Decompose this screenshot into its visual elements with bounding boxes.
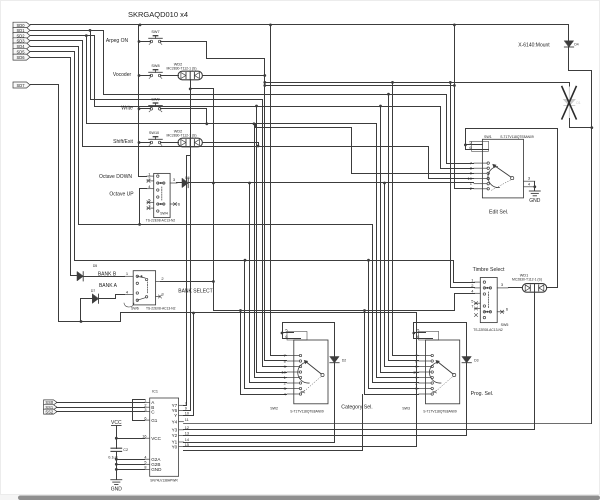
svg-text:7: 7 bbox=[471, 304, 474, 309]
wire scan row A bbox=[265, 82, 570, 84]
wire VCC to pin16 bbox=[117, 438, 145, 440]
junction SW2 pin5 bbox=[281, 332, 284, 335]
wire scan row WD2chain bbox=[214, 310, 455, 312]
net flag SS2 bbox=[44, 409, 57, 414]
net flag SD6 bbox=[13, 54, 30, 60]
junction bbox=[253, 122, 256, 125]
junction feed bbox=[138, 141, 141, 144]
wire SW2 feed bbox=[254, 124, 256, 378]
junction SD7/BANK A bbox=[80, 320, 83, 323]
SW6 pin 2 bbox=[156, 281, 160, 283]
svg-text:D2: D2 bbox=[342, 358, 346, 362]
wire G1 tie bbox=[133, 400, 145, 421]
IC1 pin 4 G2A bbox=[145, 458, 150, 460]
junction bbox=[244, 259, 247, 262]
wire SW2 pin feed bbox=[255, 377, 287, 379]
svg-text:Shift/Exit: Shift/Exit bbox=[113, 139, 133, 145]
junction bbox=[239, 309, 242, 312]
net flag SD4 bbox=[13, 43, 30, 49]
junction SW9/SD3 row bbox=[205, 122, 208, 125]
SW5 pin 7 bbox=[474, 308, 480, 310]
svg-text:Y4: Y4 bbox=[172, 419, 178, 424]
wire Y0 bus bbox=[184, 446, 417, 448]
IC1 pin 13 Y2 bbox=[179, 435, 184, 437]
wire SD2 row long bbox=[87, 123, 377, 125]
svg-text:X-6140:Mount: X-6140:Mount bbox=[518, 43, 550, 49]
wire WD1 bottom bbox=[534, 293, 536, 430]
pushbutton switch SW10 bbox=[149, 137, 163, 146]
SW3 pin 7 bbox=[419, 355, 431, 357]
slide switch SW5 box bbox=[480, 278, 497, 323]
svg-text:3: 3 bbox=[173, 177, 176, 182]
IC1 pin 5 G2B bbox=[145, 463, 150, 465]
junction bbox=[363, 309, 366, 312]
svg-text:SD7: SD7 bbox=[17, 83, 26, 88]
svg-text:SW8: SW8 bbox=[151, 64, 159, 68]
svg-text:14: 14 bbox=[185, 438, 189, 442]
slide switch SW4 box bbox=[154, 173, 170, 217]
wire SW2 pin8 row bbox=[265, 360, 287, 362]
capacitor C2 bbox=[111, 447, 122, 449]
svg-text:D4: D4 bbox=[574, 43, 578, 47]
wire SW7 output bbox=[161, 42, 207, 59]
wire SD3 bbox=[31, 41, 429, 147]
wire VCC to C2 bbox=[116, 439, 118, 449]
wire D1 bottom to right edge bbox=[570, 119, 592, 128]
pushbutton switch SW8 bbox=[149, 70, 163, 79]
wire Y5 riser bbox=[184, 313, 194, 416]
wire feed to SW9 bbox=[139, 108, 151, 110]
wire SD2 branch b bbox=[94, 36, 96, 107]
wire SW3 feed bbox=[392, 83, 394, 356]
net flag SD1 bbox=[13, 27, 30, 33]
SW5 pin 3 bbox=[497, 287, 508, 289]
svg-text:TS-22E08-AC13-N2: TS-22E08-AC13-N2 bbox=[473, 328, 503, 332]
wire SW2 pin9 row bbox=[263, 366, 287, 368]
wire C2 to gnd rail bbox=[116, 452, 118, 480]
wire SW2 pin2 row bbox=[250, 382, 287, 384]
SW4 pin 5 bbox=[147, 201, 154, 203]
wire edit pin feed bbox=[429, 178, 474, 180]
wire SW8 to WD2 bbox=[161, 75, 179, 77]
wire octave pin4 to SD4 row bbox=[140, 189, 147, 225]
rotary switch SW1 Edit Sel box bbox=[482, 139, 523, 198]
junction SD0/edit feed bbox=[453, 24, 456, 27]
svg-text:SN74LV138APWR: SN74LV138APWR bbox=[150, 479, 178, 483]
svg-text:4: 4 bbox=[471, 289, 474, 294]
wire edit pin2 feed bbox=[455, 25, 474, 189]
IC U1 SN74LV138APWR box bbox=[150, 398, 179, 476]
wire pin3 to D6 bbox=[177, 182, 183, 184]
svg-text:G1: G1 bbox=[151, 418, 158, 423]
svg-text:IC1: IC1 bbox=[152, 390, 158, 394]
wire SW3 feed bbox=[364, 311, 366, 395]
svg-text:3: 3 bbox=[161, 291, 164, 296]
wire SW1 common loop to WD1 bbox=[466, 129, 558, 288]
junction bbox=[449, 81, 452, 84]
SW5 pin 6 bbox=[497, 311, 504, 313]
wire SW3 feed bbox=[388, 95, 390, 361]
svg-text:16: 16 bbox=[142, 434, 146, 438]
wire SW2 pin9 feed bbox=[262, 100, 264, 367]
svg-text:D3: D3 bbox=[474, 358, 478, 362]
SW2 pin 2 bbox=[287, 382, 299, 384]
svg-text:Write: Write bbox=[121, 106, 133, 112]
wire SW2 common loop bbox=[283, 323, 335, 357]
junction bbox=[387, 93, 390, 96]
svg-text:SW2: SW2 bbox=[270, 407, 278, 411]
wire SW3 feed bbox=[376, 124, 378, 378]
wire D7 to SW6 pin4 bbox=[99, 295, 125, 299]
svg-text:TS-22E08-AC13-N2: TS-22E08-AC13-N2 bbox=[146, 219, 176, 223]
svg-text:S-T1TV118QTE8AN09: S-T1TV118QTE8AN09 bbox=[423, 410, 457, 414]
svg-text:MC2830-T112-1 (S): MC2830-T112-1 (S) bbox=[167, 67, 197, 71]
X deletion mark bbox=[562, 87, 576, 119]
SW1 pin 1 bbox=[474, 183, 487, 185]
wire SW10 to WD2 bbox=[161, 142, 179, 144]
net flag SD7 bbox=[13, 82, 30, 88]
wire SW2 pin feed bbox=[257, 372, 287, 374]
wire SD5 bbox=[31, 52, 75, 261]
wire SW3 common loop bbox=[414, 323, 467, 357]
SW1 pin 2 bbox=[474, 188, 487, 190]
SW4 pin 4 bbox=[147, 188, 154, 190]
svg-text:S-T1TV118QTE8AN09: S-T1TV118QTE8AN09 bbox=[290, 410, 324, 414]
junction scan B end bbox=[453, 84, 456, 87]
rotary switch SW3 box bbox=[426, 340, 460, 404]
wire SW2 pin feed bbox=[245, 388, 287, 390]
SW1 pin 9 bbox=[474, 172, 487, 174]
wire SD0 to bus bbox=[31, 24, 139, 26]
junction SW1 pin4 bbox=[533, 185, 536, 188]
junction feed bbox=[138, 40, 141, 43]
wire SW2 pin feed bbox=[271, 355, 287, 357]
IC1 pin 7 Y7 bbox=[179, 404, 184, 406]
junction SW1 pin5 bbox=[464, 144, 467, 147]
wire SW3 pin5 bbox=[414, 332, 426, 334]
svg-text:5: 5 bbox=[144, 461, 146, 465]
wire WD2 bottom to Y6 bbox=[190, 89, 192, 411]
wire SW1 pin5 bbox=[466, 144, 483, 146]
wire to G2A bbox=[117, 459, 145, 461]
wire edit feed bbox=[446, 95, 448, 164]
net flag SS1 bbox=[44, 405, 57, 410]
junction SD2 bbox=[85, 34, 88, 37]
SW5 pin 2 bbox=[474, 287, 480, 289]
wire SD1 branch to SW2 pin9 bbox=[91, 31, 263, 100]
junction SW10 out bbox=[257, 145, 260, 148]
svg-text:GND: GND bbox=[529, 198, 541, 204]
wire edit pin9 feed chain bbox=[256, 124, 474, 174]
svg-text:10: 10 bbox=[413, 369, 418, 374]
svg-text:3: 3 bbox=[528, 176, 531, 181]
wire SD6 to D5 bbox=[71, 275, 77, 277]
svg-text:6: 6 bbox=[506, 307, 509, 312]
junction SW3 pin5 bbox=[412, 332, 415, 335]
SW5 pin 1 bbox=[474, 281, 480, 283]
wire VCC down bbox=[116, 426, 118, 439]
SW3 pin 2 bbox=[419, 382, 431, 384]
svg-text:BANK A: BANK A bbox=[99, 283, 118, 289]
junction octave UP / SD4 bbox=[138, 223, 141, 226]
svg-text:4: 4 bbox=[284, 391, 287, 396]
wire SD0 top bus bbox=[139, 24, 569, 26]
wire D4 to right edge bus bbox=[569, 47, 592, 424]
wire SW3 pin feed bbox=[393, 355, 419, 357]
wire SW2 feed bbox=[256, 107, 258, 373]
svg-text:SD4: SD4 bbox=[17, 44, 26, 49]
wire SD4 bbox=[31, 47, 79, 225]
SW1 wiper bbox=[511, 177, 514, 180]
wire SW5 pin3 to WD1 bbox=[509, 287, 523, 289]
wire SD2 row bbox=[31, 35, 95, 37]
wire SW1 pin6 bbox=[466, 145, 489, 150]
SW2 pin 9 bbox=[287, 366, 299, 368]
SW3 wiper bbox=[453, 373, 456, 376]
wire edit pin feed bbox=[447, 163, 474, 165]
svg-text:6: 6 bbox=[178, 202, 181, 207]
svg-text:GND: GND bbox=[151, 467, 162, 472]
wire scan row D bbox=[95, 106, 441, 108]
wire D3 to Y2 bus bbox=[466, 363, 468, 436]
junction bbox=[367, 259, 370, 262]
wire SW3 pin6 bbox=[414, 333, 433, 339]
junction BANK sel output bbox=[212, 280, 215, 283]
wire to G2B bbox=[117, 464, 145, 466]
svg-text:2: 2 bbox=[144, 403, 146, 407]
SW5 pin 5 bbox=[474, 302, 480, 304]
svg-text:Octave DOWN: Octave DOWN bbox=[99, 174, 132, 180]
dual diode WD2 (Shift/Exit) bbox=[178, 138, 202, 147]
wire WD2-2 bottom to Y7 bbox=[187, 147, 191, 406]
svg-text:Y3: Y3 bbox=[172, 428, 178, 433]
svg-text:VCC: VCC bbox=[151, 436, 161, 441]
junction scan A bbox=[263, 81, 266, 84]
wire timbre pin2 feed bbox=[451, 83, 475, 288]
SW5 contacts bbox=[483, 281, 485, 283]
junction VCC node bbox=[115, 437, 118, 440]
wire switch feed vertical bbox=[138, 25, 140, 177]
wire SW2 feed bbox=[244, 261, 246, 389]
junction feed bbox=[138, 107, 141, 110]
svg-text:SS2: SS2 bbox=[45, 409, 53, 414]
net flag SS0 bbox=[44, 400, 57, 405]
wire SD7 bbox=[31, 85, 417, 322]
SW6 unconnected arc bbox=[124, 303, 134, 307]
wire scan bus bbox=[184, 450, 363, 452]
SW3 pin 1 bbox=[419, 377, 431, 379]
wire SW7 output to SW2 pin8 bbox=[207, 59, 265, 361]
wire feed to SW10 bbox=[139, 142, 151, 144]
SW1 pins 3,4 bbox=[524, 180, 535, 182]
diode D5 BANK B bbox=[77, 272, 83, 281]
junction bbox=[379, 105, 382, 108]
IC1 pin 10 Y bbox=[179, 415, 184, 417]
IC1 pin 15 Y0 bbox=[179, 446, 184, 448]
diode D4 mount bbox=[564, 41, 573, 47]
junction bbox=[391, 81, 394, 84]
junction G2A bbox=[115, 458, 118, 461]
svg-text:D7: D7 bbox=[91, 289, 95, 293]
SW4 pin 1 bbox=[147, 175, 154, 177]
svg-text:Timbre Select: Timbre Select bbox=[473, 267, 505, 273]
rotary switch SW2 box bbox=[294, 340, 328, 404]
junction bbox=[248, 182, 251, 185]
wire SD7 vertical to Y0 bbox=[416, 313, 418, 447]
horizontal scrollbar bbox=[0, 495, 600, 500]
SW3 pin 8 bbox=[419, 360, 431, 362]
dual diode WD2 (Vocoder) bbox=[178, 71, 202, 80]
wire SS0 to A bbox=[57, 402, 145, 404]
IC1 pin 8 GND bbox=[145, 468, 150, 470]
diode D2 bbox=[330, 357, 339, 363]
svg-text:Y: Y bbox=[174, 413, 177, 418]
svg-text:C: C bbox=[151, 409, 155, 414]
wire to D1 bbox=[569, 83, 571, 87]
wire scan bus riser bbox=[362, 395, 364, 451]
wire to D7 bbox=[81, 299, 93, 322]
wire SW9 output bbox=[161, 109, 207, 124]
svg-text:GND: GND bbox=[111, 487, 123, 493]
IC1 pin 2 B bbox=[145, 406, 150, 408]
svg-text:D5: D5 bbox=[93, 264, 97, 268]
svg-text:MC2830-T112-1 (S): MC2830-T112-1 (S) bbox=[512, 278, 542, 282]
wire SW3 pin feed bbox=[381, 372, 419, 374]
wire Y4 bus bbox=[184, 423, 592, 425]
IC1 pin 1 A bbox=[145, 401, 150, 403]
svg-text:Y0: Y0 bbox=[172, 444, 178, 449]
junction bbox=[383, 182, 386, 185]
SW1 pin 10 bbox=[474, 178, 487, 180]
wire SD1 row bbox=[31, 30, 104, 32]
SW3 pin 3 bbox=[419, 388, 431, 390]
wire Y1 bus bbox=[184, 442, 335, 444]
wire SW3 pin9 feed riser bbox=[384, 183, 386, 367]
svg-text:MC2830-T112-1 (S): MC2830-T112-1 (S) bbox=[167, 134, 197, 138]
wire D2 to Y1 bus bbox=[334, 363, 336, 443]
wire SW2 pin6 bbox=[283, 333, 301, 339]
svg-text:D6: D6 bbox=[185, 176, 189, 180]
svg-text:S-T1TV118QTE8AN09: S-T1TV118QTE8AN09 bbox=[500, 135, 534, 139]
wire Y6 stub bbox=[184, 410, 191, 412]
svg-text:TS-22E08-AC13-N2: TS-22E08-AC13-N2 bbox=[146, 307, 176, 311]
SW2 pin 7 bbox=[287, 355, 299, 357]
wire SW3 pin feed bbox=[365, 394, 419, 396]
wire SW10 output bbox=[203, 143, 259, 147]
SW3 pin 10 bbox=[419, 371, 431, 373]
junction SD0/switch-feed bbox=[139, 24, 142, 27]
junction bbox=[255, 105, 258, 108]
svg-text:Vocoder: Vocoder bbox=[113, 72, 132, 78]
diode D3 bbox=[462, 357, 471, 363]
ground IC1 bbox=[111, 479, 122, 481]
wire SD2 branch bbox=[86, 36, 88, 124]
wire SW3 feed bbox=[380, 107, 382, 373]
SW4 contacts bbox=[157, 175, 159, 177]
dual diode WD1 bbox=[522, 284, 546, 293]
svg-text:5: 5 bbox=[469, 140, 472, 145]
svg-text:SW9: SW9 bbox=[151, 97, 159, 101]
svg-text:Prog. Sel.: Prog. Sel. bbox=[471, 391, 494, 397]
SW4 pin 6 bbox=[170, 203, 177, 205]
wire timbre pin1 feed bbox=[454, 261, 475, 283]
junction SD1 bbox=[89, 29, 92, 32]
svg-text:SD6: SD6 bbox=[17, 55, 26, 60]
svg-text:4: 4 bbox=[148, 184, 151, 189]
wire to GND pin bbox=[117, 469, 145, 471]
SW4 pin 2 bbox=[147, 180, 154, 182]
pushbutton switch SW7 bbox=[149, 36, 163, 45]
net flag SD2 bbox=[13, 33, 30, 39]
SW6 contacts bbox=[136, 275, 138, 277]
wire timbre pin4 feed bbox=[455, 294, 475, 311]
svg-text:7: 7 bbox=[185, 402, 187, 406]
wire SD6 bbox=[31, 58, 71, 276]
wire SW2 pin5 bbox=[283, 332, 294, 334]
pushbutton switch SW9 bbox=[149, 103, 163, 112]
svg-text:1: 1 bbox=[126, 271, 129, 276]
wire SW3 pin feed bbox=[377, 377, 419, 379]
svg-text:SW5: SW5 bbox=[501, 323, 509, 327]
wire SD1 branch b bbox=[103, 31, 105, 95]
wire SW2 pin feed bbox=[241, 394, 287, 396]
junction bbox=[212, 182, 215, 185]
IC1 pin 11 Y4 bbox=[179, 421, 184, 423]
SW2 pin 4 bbox=[287, 393, 299, 395]
wire SW3 pin feed bbox=[369, 388, 419, 390]
wire octave pin1 bbox=[139, 176, 147, 178]
SW1 pin 8 bbox=[474, 167, 487, 169]
SW3 pin 9 bbox=[419, 366, 431, 368]
IC1 pin 3 C bbox=[145, 411, 150, 413]
wire SS2 to C bbox=[57, 411, 145, 413]
svg-text:4: 4 bbox=[144, 455, 146, 459]
SW6 pin 1 bbox=[124, 275, 133, 277]
slide switch SW6 box bbox=[133, 271, 155, 305]
wire D6 output to edit pin1 bbox=[189, 182, 474, 184]
SW3 pin 4 bbox=[419, 393, 431, 395]
wire scan row C bbox=[104, 94, 447, 96]
svg-text:SW4: SW4 bbox=[160, 212, 168, 216]
junction right edge bbox=[590, 126, 593, 129]
junction G2B bbox=[115, 463, 118, 466]
junction scan B bbox=[263, 84, 266, 87]
SW4 pin 3 bbox=[170, 182, 177, 184]
svg-text:1: 1 bbox=[471, 277, 474, 282]
wire Y2 bus bbox=[184, 435, 467, 437]
wire WD2 right output bbox=[203, 75, 265, 77]
svg-text:4: 4 bbox=[126, 289, 129, 294]
svg-text:2: 2 bbox=[161, 276, 164, 281]
SW2 wiper bbox=[321, 373, 324, 376]
wire WD1 right to edit loop bbox=[547, 287, 558, 289]
svg-text:Octave UP: Octave UP bbox=[109, 191, 134, 197]
svg-text:Category Sel.: Category Sel. bbox=[341, 404, 372, 410]
junction Y5/SD7 bbox=[192, 312, 195, 315]
wire edit feed bbox=[428, 147, 430, 179]
SW2 pin 1 bbox=[287, 377, 299, 379]
SW5 pin 4 bbox=[474, 292, 480, 294]
wire SW6 pin2 output bbox=[161, 281, 214, 283]
IC1 pin 12 Y3 bbox=[179, 429, 184, 431]
wire SW2 pin2 feed riser bbox=[249, 183, 251, 383]
svg-text:SW3: SW3 bbox=[402, 407, 410, 411]
wire SW3 feed bbox=[368, 261, 370, 389]
SW1 pin 7 bbox=[474, 162, 487, 164]
svg-text:D1: D1 bbox=[576, 101, 580, 105]
svg-text:Y2: Y2 bbox=[172, 433, 178, 438]
wire Y7 stub bbox=[184, 405, 187, 407]
